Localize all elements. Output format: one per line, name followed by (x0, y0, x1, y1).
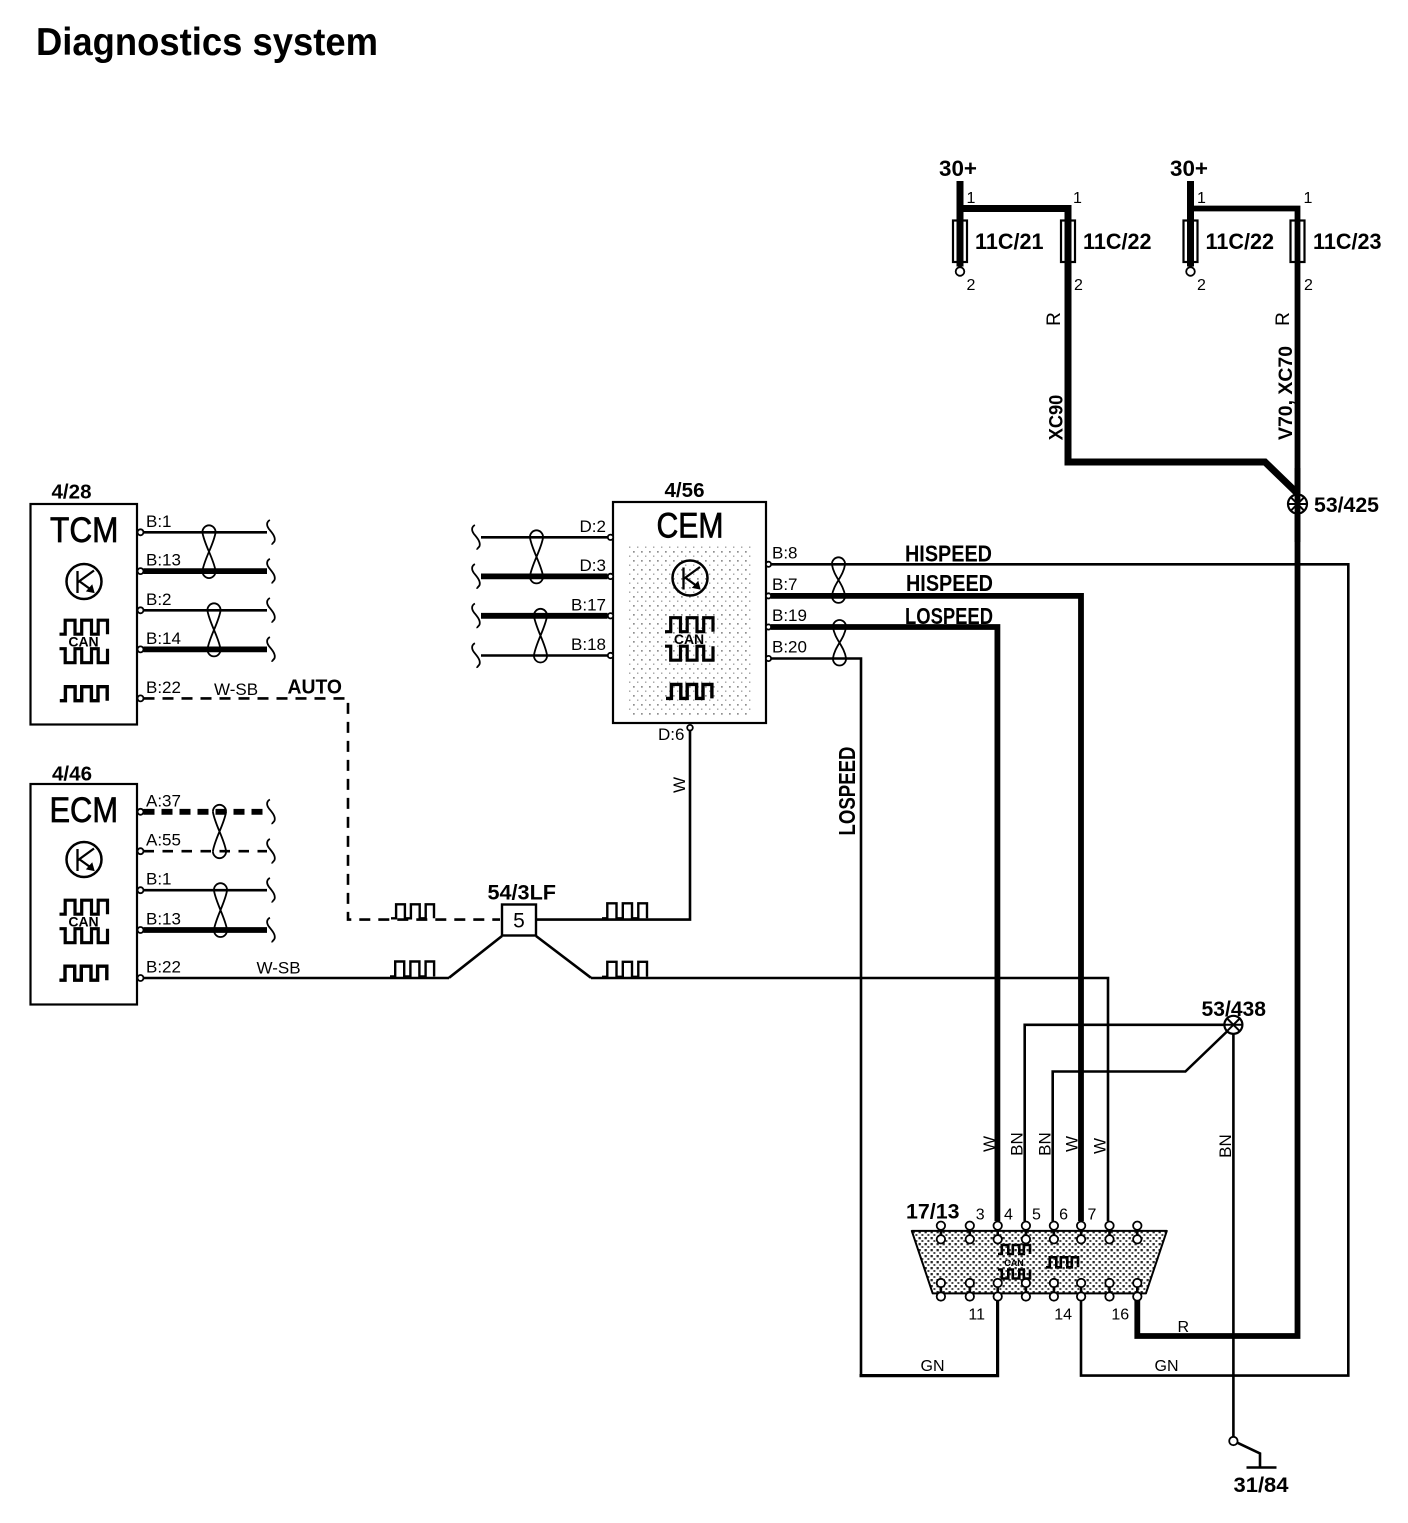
svg-text:1: 1 (967, 190, 976, 207)
svg-text:B:1: B:1 (146, 512, 172, 531)
svg-text:W: W (1063, 1136, 1082, 1152)
svg-text:1: 1 (1073, 190, 1082, 207)
wire GN to 17/13 pin 11 (860, 1300, 998, 1375)
svg-text:11C/22: 11C/22 (1083, 229, 1152, 254)
connector symbol splice 53/438 (circle with spokes) (1224, 1016, 1242, 1034)
svg-text:D:6: D:6 (658, 725, 684, 744)
svg-text:B:18: B:18 (571, 635, 606, 654)
svg-text:11C/22: 11C/22 (1206, 229, 1275, 254)
svg-text:CAN: CAN (68, 913, 98, 929)
connector symbol splice 53/425 (circle with spokes) (1288, 495, 1307, 514)
svg-text:HISPEED: HISPEED (905, 541, 992, 567)
wire LOSPEED from CEM B:20 down left side (771, 659, 861, 1376)
wire from CEM B:18 (481, 654, 608, 657)
square-wave symbol on ECM B:22 wire (390, 962, 434, 977)
svg-text:B:7: B:7 (772, 575, 798, 594)
wire break symbol ECM B:13 (267, 918, 275, 943)
twisted-pair symbol ECM A:37/A:55 (213, 805, 226, 858)
CEM pin B:8 (766, 543, 798, 567)
svg-text:LOSPEED: LOSPEED (834, 747, 860, 836)
TCM pin B:22 (138, 678, 181, 702)
svg-text:53/425: 53/425 (1314, 493, 1379, 517)
svg-text:B:1: B:1 (146, 870, 172, 889)
svg-text:30+: 30+ (939, 156, 977, 181)
twisted-pair symbol CEM D:2/D:3 (530, 530, 543, 583)
svg-text:W: W (670, 777, 689, 793)
ECM pin B:1 (138, 870, 172, 894)
svg-text:54/3LF: 54/3LF (488, 882, 557, 905)
svg-text:CEM: CEM (657, 507, 724, 546)
square-wave symbol inside CEM bottom (666, 684, 712, 698)
ECM pin B:22 (138, 958, 181, 982)
svg-text:B:8: B:8 (772, 543, 798, 562)
svg-text:B:20: B:20 (772, 638, 807, 657)
svg-text:D:3: D:3 (580, 556, 606, 575)
svg-text:TCM: TCM (50, 511, 119, 550)
svg-text:31/84: 31/84 (1234, 1474, 1289, 1497)
svg-text:2: 2 (1304, 277, 1313, 294)
fuse 11C/21 (953, 181, 1044, 294)
wire from TCM B:2 (144, 609, 268, 612)
17/13 pin column 8 (1133, 1222, 1141, 1301)
CAN symbol group inside ECM (60, 900, 108, 943)
svg-text:D:2: D:2 (580, 517, 606, 536)
svg-text:4/46: 4/46 (52, 763, 92, 786)
svg-text:53/438: 53/438 (1202, 997, 1267, 1021)
twisted-pair symbol TCM B:1/B:13 (202, 525, 215, 578)
CEM pin D:2 (580, 517, 614, 540)
svg-text:B:17: B:17 (571, 595, 606, 614)
wire BN from 17/13 pin 5 to splice 53/438 (1053, 1032, 1227, 1222)
svg-text:1: 1 (1304, 190, 1313, 207)
wire from ECM B:1 (144, 889, 268, 892)
wire from TCM B:1 (144, 531, 268, 534)
17/13 pin column 4 (1022, 1222, 1030, 1301)
wire from TCM B:14 (144, 647, 268, 653)
CAN symbol group inside TCM (60, 620, 108, 663)
svg-text:HISPEED: HISPEED (906, 570, 993, 596)
wire from ECM A:55 (dashed) (144, 850, 268, 853)
wire break symbol TCM B:13 (267, 559, 275, 584)
svg-text:BN: BN (1216, 1134, 1235, 1158)
svg-text:GN: GN (921, 1358, 945, 1375)
control module TCM 4/28 (31, 481, 138, 725)
twisted-pair symbol ECM B:1/B:13 (214, 883, 227, 937)
wire HISPEED from CEM B:8 to 17/13 pin 14 (GN) (771, 564, 1348, 1375)
K-line symbol inside TCM (67, 564, 102, 599)
svg-text:14: 14 (1054, 1307, 1072, 1324)
svg-text:BN: BN (1036, 1132, 1055, 1156)
twisted-pair symbol CEM B:8/B:7 (832, 557, 845, 603)
control module CEM 4/56 (613, 479, 766, 723)
wire HISPEED from CEM B:7 to 17/13 pin 6 (771, 596, 1081, 1221)
wire W-SB from ECM B:22 to junction 54/3LF (144, 977, 450, 980)
svg-text:B:13: B:13 (146, 910, 181, 929)
svg-text:CAN: CAN (68, 633, 98, 649)
svg-text:B:13: B:13 (146, 551, 181, 570)
svg-text:17/13: 17/13 (906, 1201, 960, 1224)
svg-text:V70, XC70: V70, XC70 (1275, 346, 1297, 440)
svg-text:B:19: B:19 (772, 606, 807, 625)
twisted-pair symbol CEM B:19/B:20 (833, 620, 846, 666)
wire break symbol CEM B:18 (472, 643, 480, 668)
diagnostic connector 17/13 (906, 1201, 1167, 1294)
TCM pin B:13 (138, 551, 181, 575)
wire BN from splice 53/438 to ground (1232, 1034, 1235, 1437)
svg-text:W-SB: W-SB (214, 680, 258, 699)
svg-text:6: 6 (1059, 1207, 1068, 1224)
CAN symbol group inside CEM (665, 618, 713, 661)
svg-text:R: R (1044, 312, 1065, 326)
twisted-pair symbol CEM B:17/B:18 (534, 609, 547, 663)
svg-text:5: 5 (513, 910, 525, 933)
CEM pin B:19 (766, 606, 807, 630)
17/13 pin column 5 (1050, 1222, 1058, 1301)
17/13 pin column 1 (937, 1222, 945, 1301)
TCM pin B:2 (138, 590, 172, 614)
svg-text:11C/21: 11C/21 (975, 229, 1044, 254)
wire break symbol TCM B:14 (267, 637, 275, 662)
svg-text:5: 5 (1032, 1207, 1041, 1224)
wire from CEM B:17 (481, 613, 608, 619)
CEM pin D:3 (580, 556, 614, 579)
wire LOSPEED from CEM B:19 to 17/13 pin 3 (771, 627, 997, 1221)
svg-text:A:37: A:37 (146, 791, 181, 810)
svg-text:4/56: 4/56 (665, 479, 705, 502)
TCM pin B:14 (138, 629, 181, 653)
svg-text:A:55: A:55 (146, 831, 181, 850)
svg-text:4/28: 4/28 (52, 481, 92, 504)
square-wave symbol on 54/3LF-CEM wire (602, 903, 647, 918)
wire break symbol ECM B:1 (267, 878, 275, 903)
svg-text:R: R (1178, 1319, 1190, 1336)
twisted-pair symbol TCM B:2/B:14 (207, 603, 220, 656)
svg-text:11: 11 (968, 1307, 985, 1324)
svg-text:4: 4 (1004, 1207, 1013, 1224)
17/13 pin column 6 (1077, 1222, 1085, 1301)
wire from CEM D:3 (481, 574, 608, 580)
square-wave symbol on AUTO dashed wire (391, 904, 434, 918)
CEM pin B:20 (766, 638, 807, 662)
square-wave symbol on K-line wire to 17/13 (602, 962, 647, 977)
control module ECM 4/46 (31, 763, 138, 1005)
svg-text:B:14: B:14 (146, 629, 181, 648)
wire from ECM B:13 (144, 927, 268, 933)
wire R from fuse 11C/22 (XC90 variant) (960, 209, 1298, 494)
svg-text:1: 1 (1197, 190, 1206, 207)
wire from TCM B:13 (144, 568, 268, 574)
CAN symbol inside 17/13 (998, 1245, 1030, 1279)
CEM pin B:7 (766, 575, 798, 599)
wire from 54/3LF to 17/13 pin 7 (536, 936, 591, 978)
svg-text:BN: BN (1008, 1132, 1027, 1156)
ECM pin B:13 (138, 910, 181, 934)
square-wave symbol inside 17/13 right (1046, 1257, 1078, 1267)
svg-text:3: 3 (976, 1207, 985, 1224)
svg-text:XC90: XC90 (1046, 395, 1068, 441)
wire break symbol ECM A:55 (267, 839, 275, 864)
wire break symbol TCM B:1 (267, 520, 275, 545)
junction 54/3LF (488, 882, 557, 936)
17/13 pin column 2 (966, 1222, 974, 1301)
svg-text:16: 16 (1111, 1307, 1129, 1324)
svg-text:B:22: B:22 (146, 678, 181, 697)
ECM pin A:55 (138, 831, 181, 855)
svg-text:2: 2 (1074, 277, 1083, 294)
17/13 pin column 7 (1105, 1222, 1113, 1301)
K-line symbol inside CEM (673, 561, 708, 596)
wire break symbol CEM D:2 (472, 525, 480, 550)
wire from ECM A:37 (dashed thick) (144, 809, 268, 815)
svg-text:7: 7 (1088, 1207, 1097, 1224)
fuse 11C/22 (XC90) (1061, 190, 1152, 294)
wire R through splice 53/425 (1295, 468, 1301, 542)
svg-text:2: 2 (967, 277, 976, 294)
svg-text:R: R (1273, 312, 1294, 326)
17/13 pin column 3 (994, 1222, 1002, 1301)
wire break symbol TCM B:2 (267, 598, 275, 623)
svg-text:CAN: CAN (674, 631, 704, 647)
ECM pin A:37 (138, 791, 181, 815)
fuse 11C/22 (V70) (1184, 181, 1275, 294)
svg-text:Diagnostics system: Diagnostics system (36, 21, 378, 64)
svg-text:W: W (980, 1136, 999, 1152)
CEM pin B:17 (571, 595, 613, 618)
K-line symbol inside ECM (67, 842, 102, 877)
wire from CEM D:2 (481, 536, 608, 539)
ground terminal 31/84 (1229, 1437, 1289, 1497)
svg-text:LOSPEED: LOSPEED (905, 603, 993, 629)
wire BN from 17/13 pin 4 to splice 53/438 (1025, 1025, 1224, 1221)
svg-text:11C/23: 11C/23 (1313, 229, 1382, 254)
TCM pin B:1 (138, 512, 172, 536)
svg-text:CAN: CAN (1004, 1258, 1024, 1268)
svg-text:GN: GN (1155, 1358, 1179, 1375)
wire from 54/3LF to CEM D:6 (536, 731, 690, 920)
svg-text:W: W (1091, 1138, 1110, 1154)
wire W-SB AUTO from TCM B:22 to junction 54/3LF (dashed) (144, 698, 501, 919)
wire R from fuse 11C/23 (V70,XC70 variant) down to splice (1137, 209, 1297, 1337)
svg-text:30+: 30+ (1170, 156, 1208, 181)
CEM pin B:18 (571, 635, 613, 658)
svg-text:AUTO: AUTO (288, 677, 343, 699)
svg-text:B:22: B:22 (146, 958, 181, 977)
svg-text:W-SB: W-SB (257, 959, 301, 978)
wire break symbol CEM D:3 (472, 564, 480, 589)
svg-text:2: 2 (1197, 277, 1206, 294)
square-wave symbol inside TCM bottom (60, 687, 107, 701)
wire break symbol ECM A:37 (267, 800, 275, 825)
wire break symbol CEM B:17 (472, 604, 480, 629)
fuse 11C/23 (1291, 190, 1382, 294)
square-wave symbol inside ECM bottom (59, 966, 106, 980)
svg-text:ECM: ECM (50, 791, 119, 830)
svg-text:B:2: B:2 (146, 590, 172, 609)
CEM pin D:6 (658, 725, 693, 744)
